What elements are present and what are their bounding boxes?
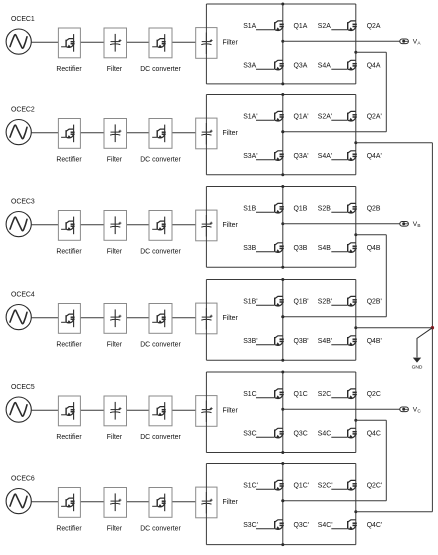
svg-text:Q2C': Q2C' [367,483,382,490]
svg-text:Q3A': Q3A' [294,153,309,160]
svg-text:Q3C: Q3C [294,431,308,438]
svg-text:Q2A: Q2A [367,23,381,30]
svg-text:OCEC2: OCEC2 [11,106,35,113]
svg-text:DC converter: DC converter [140,525,181,532]
svg-text:S1B: S1B [243,206,256,213]
svg-text:S3C': S3C' [243,522,258,529]
svg-text:Filter: Filter [107,156,123,163]
svg-text:Filter: Filter [107,248,123,255]
svg-text:Q4B: Q4B [367,245,381,252]
svg-text:S3C: S3C [243,431,256,438]
svg-text:OCEC5: OCEC5 [11,384,35,391]
svg-text:S1A: S1A [243,23,256,30]
svg-text:B: B [417,223,420,228]
svg-text:DC converter: DC converter [140,156,181,163]
svg-text:S2C': S2C' [318,483,333,490]
svg-text:OCEC4: OCEC4 [11,291,35,298]
svg-text:Q4B': Q4B' [367,338,382,345]
svg-text:Filter: Filter [223,40,239,47]
svg-text:Q1B': Q1B' [294,299,309,306]
svg-text:Q2C: Q2C [367,391,381,398]
svg-text:Q1C: Q1C [294,391,308,398]
svg-text:S1B': S1B' [243,299,257,306]
svg-text:Q1C': Q1C' [294,483,309,490]
svg-text:Rectifier: Rectifier [56,248,82,255]
svg-text:Q2B: Q2B [367,206,381,213]
svg-text:OCEC1: OCEC1 [11,16,35,23]
svg-text:Filter: Filter [223,222,239,229]
svg-text:GND: GND [412,364,423,370]
svg-text:S4C: S4C [318,431,331,438]
svg-text:S4B: S4B [318,245,331,252]
svg-text:Q3C': Q3C' [294,522,309,529]
svg-text:Rectifier: Rectifier [56,156,82,163]
svg-text:Q3B': Q3B' [294,338,309,345]
svg-text:S4B': S4B' [318,338,332,345]
svg-text:S1A': S1A' [243,114,257,121]
svg-text:S3A': S3A' [243,153,257,160]
svg-text:S2C: S2C [318,391,331,398]
svg-text:DC converter: DC converter [140,434,181,441]
svg-text:S2B': S2B' [318,299,332,306]
svg-text:Q4A': Q4A' [367,153,382,160]
svg-text:Filter: Filter [107,434,123,441]
svg-text:Filter: Filter [223,408,239,415]
svg-text:Filter: Filter [107,341,123,348]
svg-text:Rectifier: Rectifier [56,525,82,532]
svg-text:OCEC6: OCEC6 [11,475,35,482]
svg-text:Q4A: Q4A [367,63,381,70]
svg-text:S1C': S1C' [243,483,258,490]
svg-text:Q3A: Q3A [294,63,308,70]
svg-text:Filter: Filter [223,315,239,322]
svg-text:OCEC3: OCEC3 [11,198,35,205]
svg-text:Q2B': Q2B' [367,299,382,306]
svg-text:S2B: S2B [318,206,331,213]
svg-text:S2A': S2A' [318,114,332,121]
svg-text:Filter: Filter [107,525,123,532]
svg-text:Q3B: Q3B [294,245,308,252]
svg-text:DC converter: DC converter [140,248,181,255]
svg-text:Q1A: Q1A [294,23,308,30]
svg-text:S4A': S4A' [318,153,332,160]
svg-text:S3B: S3B [243,245,256,252]
svg-text:DC converter: DC converter [140,66,181,73]
svg-text:Rectifier: Rectifier [56,341,82,348]
svg-text:S1C: S1C [243,391,256,398]
svg-text:S4C': S4C' [318,522,333,529]
svg-text:Q4C': Q4C' [367,522,382,529]
svg-text:S4A: S4A [318,63,331,70]
svg-text:Filter: Filter [107,66,123,73]
svg-text:Rectifier: Rectifier [56,434,82,441]
svg-text:Filter: Filter [223,130,239,137]
svg-text:S2A: S2A [318,23,331,30]
svg-text:S3B': S3B' [243,338,257,345]
svg-text:DC converter: DC converter [140,341,181,348]
svg-text:S3A: S3A [243,63,256,70]
svg-text:Q2A': Q2A' [367,114,382,121]
svg-text:Q4C: Q4C [367,431,381,438]
svg-text:Q1A': Q1A' [294,114,309,121]
svg-text:Rectifier: Rectifier [56,66,82,73]
svg-text:Filter: Filter [223,499,239,506]
svg-text:Q1B: Q1B [294,206,308,213]
